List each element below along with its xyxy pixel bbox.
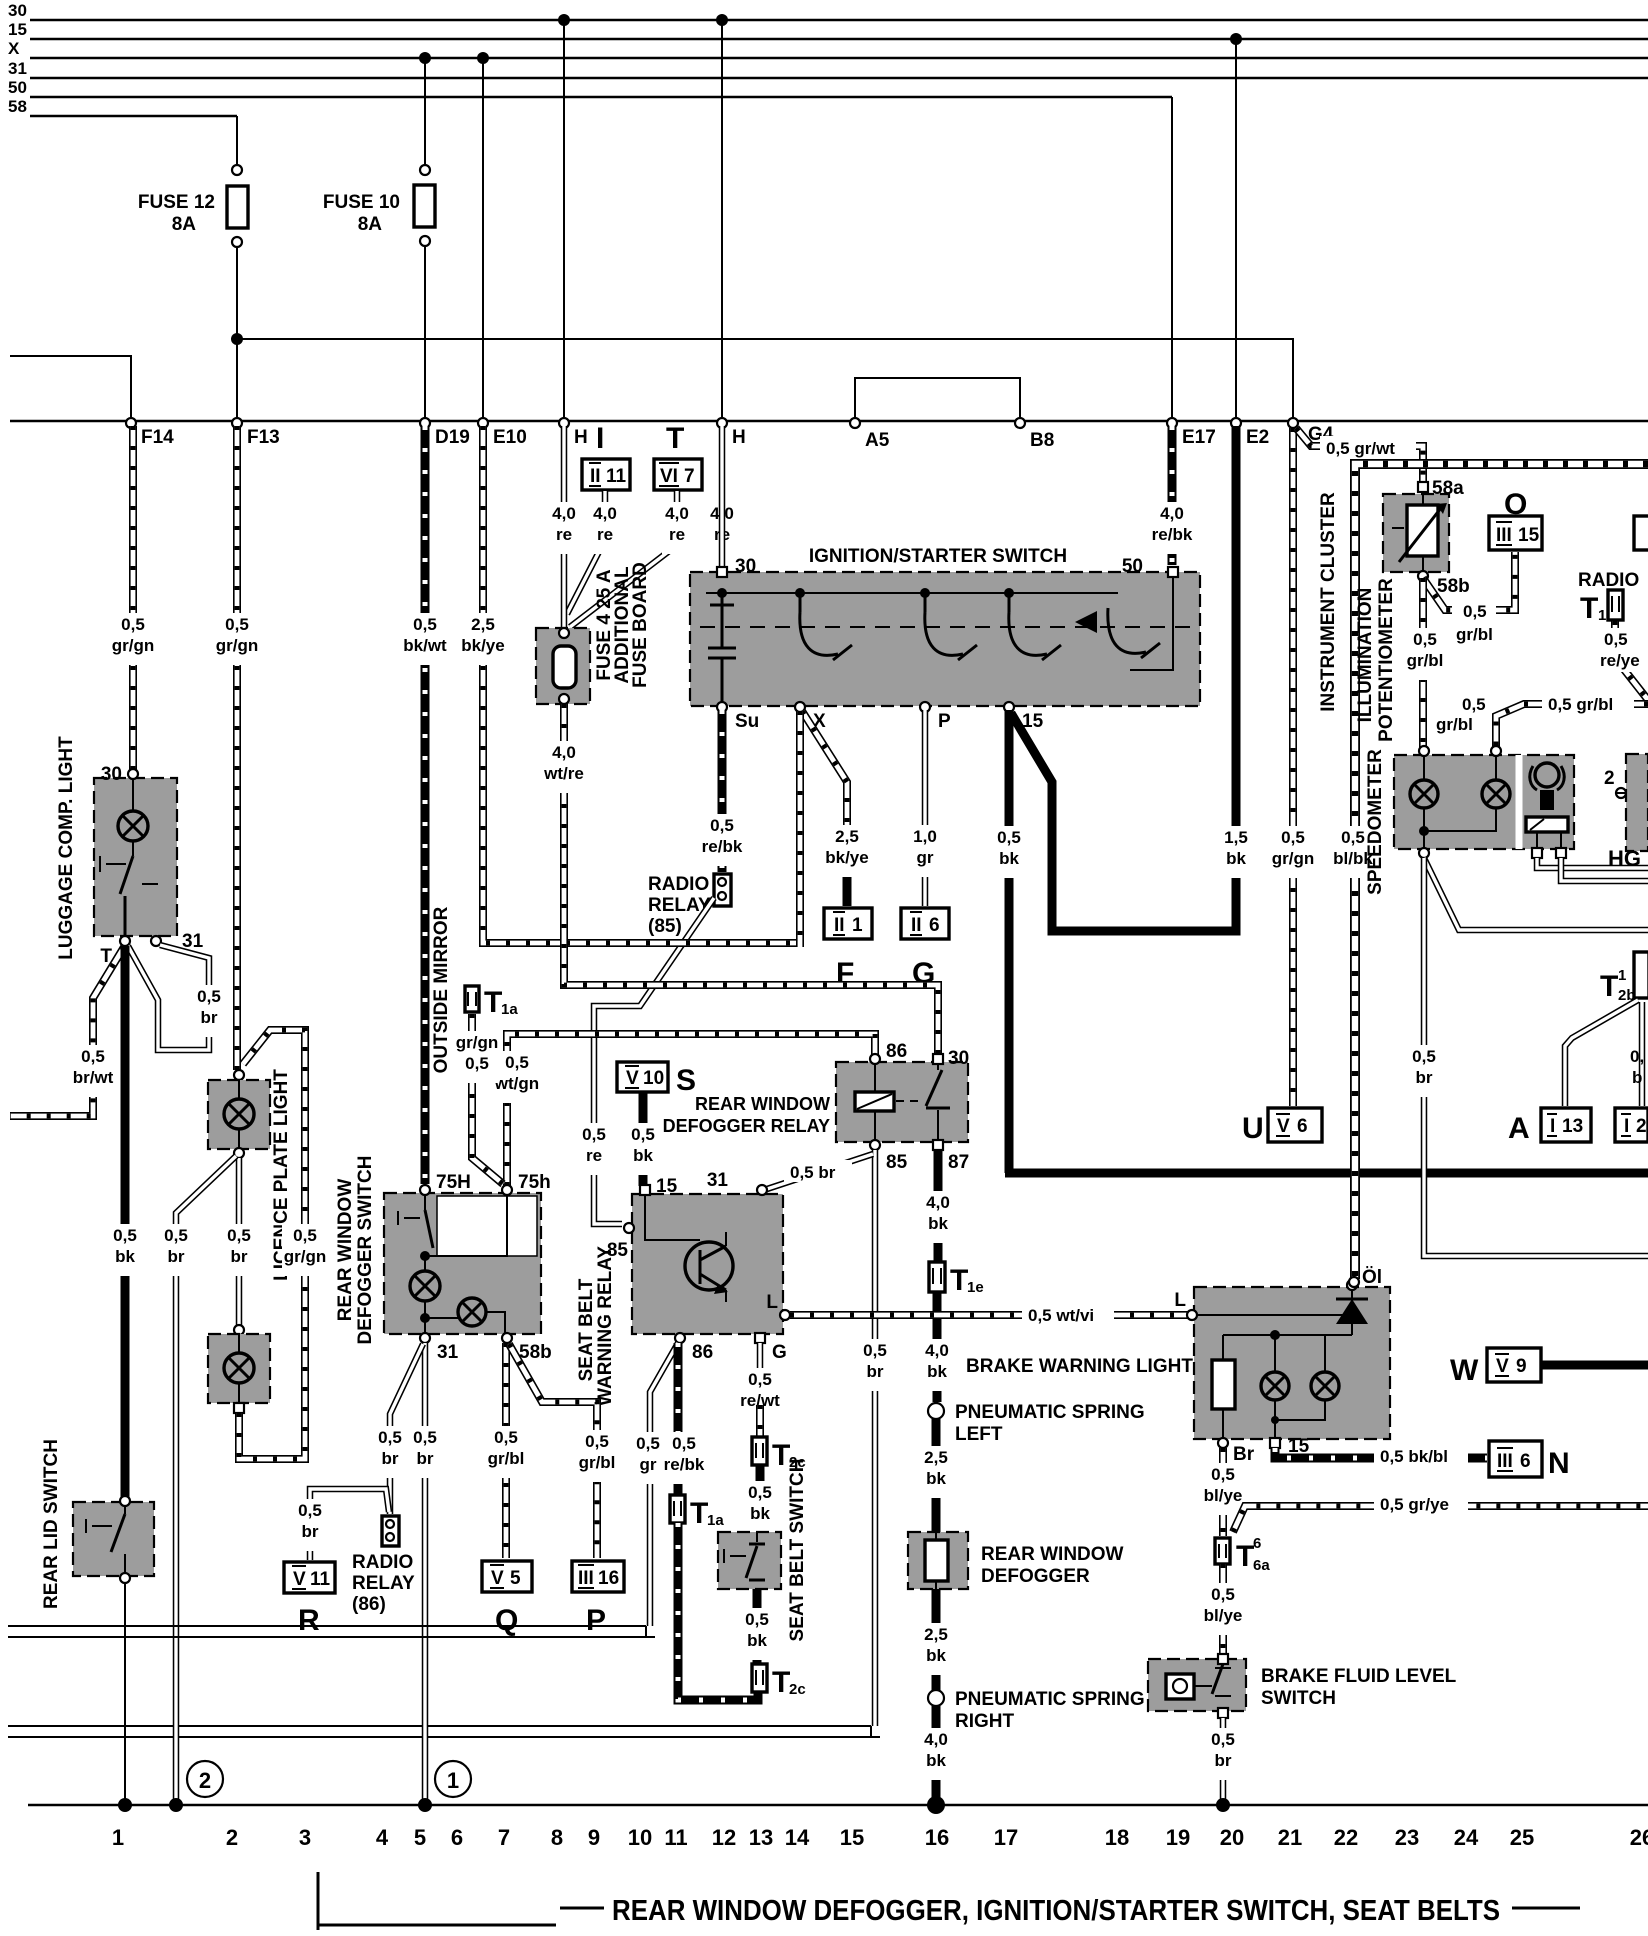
ignition dashed linkage line (700, 626, 1190, 628)
bus 15 (8, 20, 1648, 39)
label 0,5 gr/ye (1374, 1492, 1468, 1514)
svg-text:Öl: Öl (1362, 1267, 1382, 1288)
svg-text:bk: bk (747, 1631, 767, 1650)
svg-text:58b: 58b (519, 1342, 552, 1363)
defogger element symbol (925, 1532, 948, 1589)
svg-text:re: re (597, 525, 613, 544)
svg-text:2: 2 (226, 1825, 238, 1850)
seat belt switch box (718, 1532, 781, 1589)
svg-text:2c: 2c (789, 1681, 806, 1698)
svg-text:0,5: 0,5 (413, 615, 437, 634)
svg-text:re/bk: re/bk (1152, 525, 1193, 544)
wire H1 down to fuse4 (561, 426, 568, 630)
connector plug I 2 partial (1615, 1108, 1648, 1142)
wire speedo motor terminals right (1537, 858, 1648, 868)
svg-text:D19: D19 (435, 427, 470, 448)
wire X-F lower thick (843, 855, 852, 906)
svg-text:11: 11 (664, 1825, 687, 1850)
svg-text:17: 17 (994, 1825, 1018, 1850)
label 0,5 gr/bl (O) (1452, 600, 1496, 646)
svg-text:III: III (1496, 525, 1512, 546)
svg-text:1a: 1a (707, 1512, 724, 1529)
label 1,0 gr (910, 825, 940, 877)
svg-text:br: br (417, 1449, 434, 1468)
wire E17 to ignition 50 (4,0 re/bk) (1168, 426, 1177, 565)
svg-text:U: U (1242, 1112, 1264, 1145)
svg-text:IGNITION/STARTER SWITCH: IGNITION/STARTER SWITCH (809, 546, 1067, 567)
svg-text:5: 5 (414, 1825, 426, 1850)
svg-text:4,0: 4,0 (593, 504, 617, 523)
bwl internals: diode (1197, 1290, 1368, 1335)
connector T2c top (752, 1437, 806, 1472)
svg-text:REAR WINDOW: REAR WINDOW (981, 1544, 1124, 1565)
label 4,0 bk (923, 1191, 953, 1243)
terminal P (ignition) (920, 702, 951, 732)
node bus30-H1 (558, 14, 570, 26)
label PNEUMATIC SPRING LEFT (955, 1402, 1145, 1445)
svg-text:1: 1 (852, 915, 863, 936)
label 4,0 re (T) (662, 502, 692, 554)
connector S plug V 10 (617, 1062, 696, 1097)
rear window defogger relay box (836, 1062, 968, 1142)
svg-text:RIGHT: RIGHT (955, 1711, 1015, 1732)
wire bus30 to rail H2 (721, 20, 723, 420)
wire F13 to licence plate lamp1 (0,5 gr/gn) (233, 426, 241, 1070)
terminal B8 (1015, 418, 1054, 451)
svg-text:30: 30 (948, 1048, 969, 1069)
svg-text:0,5: 0,5 (197, 987, 221, 1006)
illumination potentiometer label (1355, 578, 1397, 742)
terminal H2 (717, 418, 746, 448)
svg-text:0,5: 0,5 (81, 1047, 105, 1066)
ground bus bottom (28, 1804, 1648, 1807)
wire junction y339 to G4 (237, 339, 1293, 420)
terminal 30 (relay) (933, 1048, 969, 1069)
wire defogger sw 58b to P (0,5 gr/bl) (509, 1344, 597, 1558)
svg-text:75h: 75h (518, 1172, 551, 1193)
brake warning light box (1194, 1287, 1390, 1439)
connector T1e (929, 1262, 984, 1297)
svg-text:VI: VI (660, 466, 678, 487)
svg-text:0,5 gr/wt: 0,5 gr/wt (1326, 439, 1395, 458)
svg-text:III: III (1497, 1451, 1513, 1472)
svg-text:22: 22 (1334, 1825, 1358, 1850)
label REAR WINDOW DEFOGGER (981, 1544, 1124, 1587)
label 0,5 gr/wt (1320, 436, 1416, 458)
svg-text:bk: bk (633, 1146, 653, 1165)
terminal G (sbr) (755, 1333, 787, 1363)
svg-text:2,5: 2,5 (924, 1625, 948, 1644)
terminal D19 (420, 418, 470, 448)
wire pneumatic right to ground bus (4,0 bk) (932, 1706, 941, 1802)
svg-text:II: II (834, 915, 845, 936)
title bracket (318, 1872, 604, 1930)
svg-text:0,5: 0,5 (631, 1125, 655, 1144)
wire sbr G down (0,5 re/wt) (757, 1343, 764, 1408)
connector O plug III 15 (1489, 488, 1542, 550)
svg-text:E17: E17 (1182, 427, 1216, 448)
svg-text:V: V (491, 1568, 504, 1589)
wire bus15 to rail E2 (1235, 39, 1237, 420)
terminal 75H (420, 1172, 471, 1195)
svg-text:85: 85 (607, 1240, 629, 1261)
wire T2b to A I13 (1565, 1000, 1638, 1106)
svg-text:bk/wt: bk/wt (403, 636, 447, 655)
svg-text:50: 50 (1122, 556, 1143, 577)
svg-text:6: 6 (929, 915, 940, 936)
wire VI7 to fuse4 top (570, 491, 677, 627)
rear window defogger relay label (663, 1094, 830, 1136)
svg-text:10: 10 (643, 1068, 664, 1089)
svg-text:T: T (772, 1666, 790, 1699)
svg-text:bk: bk (1226, 849, 1246, 868)
svg-text:E10: E10 (493, 427, 527, 448)
wire T br/wt to left edge (10, 947, 124, 1116)
svg-text:0,5 wt/vi: 0,5 wt/vi (1028, 1306, 1094, 1325)
label 0,5 br (sw31-radio) (375, 1426, 405, 1478)
wire bus50 to rail E17 (1171, 97, 1173, 420)
column numbers (112, 1825, 1648, 1850)
svg-text:PNEUMATIC SPRING: PNEUMATIC SPRING (955, 1689, 1145, 1710)
svg-text:W: W (1450, 1354, 1479, 1387)
svg-text:1a: 1a (501, 1001, 518, 1018)
svg-text:0,5 bk/bl: 0,5 bk/bl (1380, 1447, 1448, 1466)
svg-text:2,5: 2,5 (835, 827, 859, 846)
svg-text:V: V (293, 1569, 306, 1590)
connector G plug II 6 (901, 908, 949, 990)
wire A5-B8 jumper (855, 378, 1020, 420)
svg-text:4,0: 4,0 (926, 1193, 950, 1212)
svg-text:7: 7 (684, 466, 695, 487)
label 2 and partial right instrument (1604, 754, 1648, 851)
svg-text:1: 1 (447, 1768, 459, 1793)
terminal 31 (defogger switch) (420, 1333, 459, 1363)
svg-text:gr: gr (640, 1455, 657, 1474)
connector F plug II 1 (824, 908, 872, 990)
label RADIO RELAY (85) (648, 874, 711, 937)
instrument cluster thick wire (0,5 bl/bk) (1355, 464, 1648, 1279)
svg-text:21: 21 (1278, 1825, 1302, 1850)
svg-text:Q: Q (495, 1604, 518, 1637)
label 0,5 bl/bk (1333, 826, 1373, 878)
wire 75h to defogger relay 86 (0,5 wt/gn) (507, 1034, 875, 1186)
label 0,5 bk (T) (110, 1224, 140, 1276)
label 0,5 gr/gn (G4-U) (1270, 826, 1316, 878)
label 0,5 bk (15) (994, 826, 1024, 878)
svg-text:24: 24 (1454, 1825, 1479, 1850)
label 4,0 re (H1) (549, 502, 579, 554)
svg-text:re: re (586, 1146, 602, 1165)
svg-text:0,5: 0,5 (672, 1434, 696, 1453)
svg-text:bk: bk (926, 1646, 946, 1665)
svg-text:L: L (766, 1292, 778, 1313)
wire T to 31 loop (0,5 br) (128, 945, 209, 1050)
svg-text:ILLUMINATION: ILLUMINATION (1355, 588, 1376, 723)
svg-text:X: X (8, 39, 20, 58)
svg-text:bk: bk (927, 1362, 947, 1381)
svg-text:T: T (1236, 1540, 1254, 1573)
label 0,5 bk/wt (D19) (402, 613, 448, 665)
svg-text:6a: 6a (1253, 1557, 1270, 1574)
label 0,5 br (x176) (161, 1224, 191, 1276)
terminal E17 (1167, 418, 1216, 448)
svg-text:gr/gn: gr/gn (284, 1247, 327, 1266)
node bus dots bottom (118, 1798, 132, 1812)
svg-text:BRAKE FLUID LEVEL: BRAKE FLUID LEVEL (1261, 1666, 1457, 1687)
seat belt warning relay box (632, 1194, 783, 1334)
switch (luggage) (100, 856, 158, 938)
svg-text:A: A (1508, 1112, 1530, 1145)
wire rear lid switch to ground bus (124, 1583, 126, 1802)
connector W plug V 9 (1450, 1348, 1541, 1387)
wire gr/ye to right edge (1233, 1506, 1648, 1532)
svg-text:BRAKE WARNING LIGHT: BRAKE WARNING LIGHT (966, 1356, 1193, 1377)
node bus30-H2 (716, 14, 728, 26)
node busX-E10 (477, 52, 489, 64)
brake fluid level switch box (1148, 1659, 1246, 1711)
bus 50 (8, 78, 1172, 97)
svg-text:3: 3 (299, 1825, 311, 1850)
label 0,5 br/wt (70, 1045, 116, 1097)
svg-text:20: 20 (1220, 1825, 1244, 1850)
svg-text:0,5: 0,5 (748, 1370, 772, 1389)
seat belt switch symbol (724, 1532, 765, 1580)
svg-text:H: H (574, 427, 588, 448)
terminal 15 (sbr) (640, 1176, 678, 1197)
partial connector box right edge top (1634, 516, 1648, 550)
svg-text:II: II (911, 915, 922, 936)
rear window defogger switch box (384, 1193, 541, 1334)
connector T1a (mirror) (465, 986, 518, 1019)
svg-text:gr/bl: gr/bl (579, 1453, 616, 1472)
node bus15-E2 (1230, 33, 1242, 45)
label 4,0 re (I) (590, 502, 620, 554)
wire lamp1 to lamp2 (0,5 br) (236, 1158, 243, 1326)
connector T1i (1580, 590, 1623, 625)
svg-text:0,5: 0,5 (636, 1434, 660, 1453)
svg-text:2,5: 2,5 (471, 615, 495, 634)
wire relay85 to seatbelt31 (0,5 br) (764, 1154, 873, 1190)
terminal 31 (sbr) (707, 1170, 767, 1195)
svg-text:0,5: 0,5 (1211, 1585, 1235, 1604)
wire defogger sw 31 to ground bus (0,5 br) (422, 1343, 429, 1802)
svg-text:1: 1 (1618, 967, 1626, 984)
svg-text:0,5: 0,5 (710, 816, 734, 835)
wire T1a to 75h (0,5 gr/gn) (472, 1014, 503, 1184)
label 0,5 bk (below sbs) (742, 1608, 772, 1660)
terminal L (sbr) (766, 1292, 790, 1320)
svg-text:4,0: 4,0 (665, 504, 689, 523)
svg-text:2: 2 (199, 1768, 211, 1793)
bus 31 (8, 59, 1648, 78)
svg-text:b: b (1632, 1068, 1642, 1087)
seat belt warning relay label (576, 1246, 616, 1406)
label 0,5 bl/ye (lower) (1201, 1583, 1245, 1635)
label 0,5 gr/gn (loop) (282, 1224, 328, 1276)
svg-text:br: br (201, 1008, 218, 1027)
svg-text:REAR WINDOW DEFOGGER, IGNITION: REAR WINDOW DEFOGGER, IGNITION/STARTER S… (612, 1895, 1500, 1927)
svg-text:bk: bk (999, 849, 1019, 868)
rear window defogger element box (908, 1532, 968, 1589)
svg-text:18: 18 (1105, 1825, 1129, 1850)
svg-text:11: 11 (606, 466, 627, 487)
svg-text:0,5: 0,5 (1463, 602, 1487, 621)
svg-text:T: T (690, 1497, 708, 1530)
svg-text:30: 30 (8, 1, 27, 20)
label 0,5 br (T2b) (1630, 1047, 1644, 1087)
svg-text:SPEEDOMETER: SPEEDOMETER (1365, 749, 1386, 895)
wire busX to fuse10 (424, 58, 426, 165)
label 2,5 bk/ye (E10) (460, 613, 506, 665)
terminal Oel (bwl) (1347, 1267, 1382, 1290)
node pneumatic spring left (928, 1403, 944, 1419)
svg-text:FUSE 12: FUSE 12 (138, 192, 215, 213)
title trailing line (1512, 1907, 1580, 1910)
svg-text:58b: 58b (1437, 576, 1470, 597)
svg-text:4,0: 4,0 (552, 743, 576, 762)
terminal 58b (pot) (1418, 571, 1470, 597)
svg-text:re/bk: re/bk (702, 837, 743, 856)
ignition arrow and blade 50 (1075, 611, 1097, 633)
svg-text:0,5 br: 0,5 br (790, 1163, 836, 1182)
svg-text:0,5: 0,5 (494, 1428, 518, 1447)
connector T6a (1215, 1535, 1270, 1574)
svg-text:FUSE BOARD: FUSE BOARD (630, 562, 651, 688)
connector N plug III 6 (1489, 1441, 1570, 1480)
svg-text:6: 6 (1297, 1116, 1308, 1137)
wire F14 to luggage light (0,5 gr/gn) (129, 426, 137, 770)
terminal Oel top (1349, 1277, 1359, 1287)
svg-text:5: 5 (510, 1568, 521, 1589)
wire T1i diag (0,5 re/ye) (1615, 621, 1648, 700)
svg-text:50: 50 (8, 78, 27, 97)
bwl internals: junction line (1223, 1330, 1352, 1371)
svg-text:12: 12 (712, 1825, 736, 1850)
svg-text:58: 58 (8, 97, 27, 116)
svg-text:6: 6 (451, 1825, 463, 1850)
svg-text:31: 31 (437, 1342, 459, 1363)
svg-text:10: 10 (628, 1825, 652, 1850)
svg-text:wt/re: wt/re (543, 764, 584, 783)
bwl resistor (1212, 1360, 1235, 1409)
wire Su to radio relay 85 (0,5 re/bk) (718, 710, 727, 872)
svg-text:bk/ye: bk/ye (825, 848, 868, 867)
speedometer motor symbols (1526, 763, 1568, 851)
label 0,5 br (bfs) (1208, 1728, 1238, 1780)
label 4,0 bk (below T1e) (922, 1339, 952, 1391)
svg-text:OUTSIDE MIRROR: OUTSIDE MIRROR (431, 906, 452, 1073)
wire T1e to pneumatic left (4,0 bk) (933, 1292, 942, 1402)
svg-text:SEAT BELT SWITCH: SEAT BELT SWITCH (787, 1459, 808, 1642)
label 0,5 re (579, 1123, 609, 1175)
svg-text:RELAY: RELAY (352, 1573, 415, 1594)
svg-text:br: br (302, 1522, 319, 1541)
svg-text:(85): (85) (648, 916, 682, 937)
svg-text:RADIO: RADIO (648, 874, 709, 895)
wire ignition P to G (1,0 gr) (922, 710, 929, 906)
svg-text:br: br (867, 1362, 884, 1381)
svg-text:DEFOGGER: DEFOGGER (981, 1566, 1090, 1587)
label 0,5 re/bk (Su) (700, 814, 744, 866)
wire T2c to seat belt switch (0,5 bk) (756, 1465, 765, 1530)
terminal X (ignition) (795, 702, 826, 732)
relay switch symbol (926, 1062, 950, 1142)
label 0,5 br (relay85-31) (784, 1160, 852, 1182)
svg-text:bl/ye: bl/ye (1204, 1486, 1243, 1505)
wire bwl 15 to N (0,5 bk/bl) (1275, 1448, 1487, 1458)
svg-text:bk: bk (750, 1504, 770, 1523)
ignition contact Su (708, 595, 736, 704)
svg-text:6: 6 (1253, 1535, 1261, 1552)
svg-text:8A: 8A (172, 214, 197, 235)
svg-text:gr/gn: gr/gn (1272, 849, 1315, 868)
svg-text:REAR LID SWITCH: REAR LID SWITCH (41, 1439, 62, 1609)
speedometer lamp 1 (1410, 756, 1438, 831)
svg-text:2: 2 (1636, 1116, 1647, 1137)
wire defogger sw 31 to radio relay 86 (0,5 br) (390, 1344, 423, 1514)
label 0,5 gr/bl (speedo1) (1436, 695, 1486, 734)
wire defogger sw 58b to Q (0,5 gr/bl) (502, 1343, 510, 1558)
wire thick horizontal to right edge (1005, 1169, 1648, 1178)
ignition switch blade P (925, 597, 977, 660)
svg-text:0,5: 0,5 (413, 1428, 437, 1447)
wire speedo bottom down and right (0,5 br) (1424, 858, 1648, 1256)
svg-text:86: 86 (886, 1041, 907, 1062)
label RADIO RELAY (86) (352, 1552, 415, 1615)
label 4,0 re/bk (E17) (1150, 502, 1194, 554)
wire G4 to U connector (0,5 gr/gn) (1289, 428, 1297, 1106)
svg-text:0,5: 0,5 (1341, 828, 1365, 847)
svg-text:Su: Su (735, 711, 759, 732)
label 0,5 bk (S) (628, 1123, 658, 1175)
svg-text:RADIO: RADIO (1578, 570, 1639, 591)
svg-text:14: 14 (785, 1825, 810, 1850)
terminal 87 (relay) (933, 1140, 969, 1173)
svg-text:gr/gn: gr/gn (112, 636, 155, 655)
svg-text:9: 9 (588, 1825, 600, 1850)
wire gr/bl from right to speedometer 2 (1496, 704, 1648, 748)
svg-text:0,5: 0,5 (1281, 828, 1305, 847)
svg-text:FUSE 10: FUSE 10 (323, 192, 400, 213)
label 2,5 bk (below defogger) (921, 1623, 951, 1675)
svg-text:31: 31 (8, 59, 27, 78)
wire Br to T6a (0,5 bl/ye) (1219, 1448, 1227, 1536)
svg-text:re: re (556, 525, 572, 544)
label 2,5 bk/ye (F) (824, 825, 870, 877)
svg-text:gr/bl: gr/bl (1407, 651, 1444, 670)
svg-text:SWITCH: SWITCH (1261, 1688, 1336, 1709)
svg-text:I: I (1624, 1116, 1629, 1137)
svg-text:LEFT: LEFT (955, 1424, 1003, 1445)
svg-text:0,5: 0,5 (378, 1428, 402, 1447)
terminal Br (bwl) (1218, 1438, 1255, 1465)
ignition switch blade X (800, 597, 852, 660)
svg-text:30: 30 (101, 764, 122, 785)
node fuse12-junction (231, 333, 243, 345)
terminal 86 (sbr) (675, 1333, 713, 1363)
label 0,5 re/ye (1596, 628, 1640, 672)
wire fuse12 to rail F13 (236, 247, 238, 420)
svg-text:F13: F13 (247, 427, 280, 448)
svg-text:23: 23 (1395, 1825, 1419, 1850)
svg-text:0,5: 0,5 (997, 828, 1021, 847)
svg-text:I: I (1550, 1116, 1555, 1137)
svg-text:0,5: 0,5 (748, 1483, 772, 1502)
connector A plug I 13 (1508, 1108, 1591, 1145)
svg-text:0,5: 0,5 (1604, 630, 1628, 649)
bus 58 (8, 97, 237, 116)
svg-text:16: 16 (925, 1825, 949, 1850)
